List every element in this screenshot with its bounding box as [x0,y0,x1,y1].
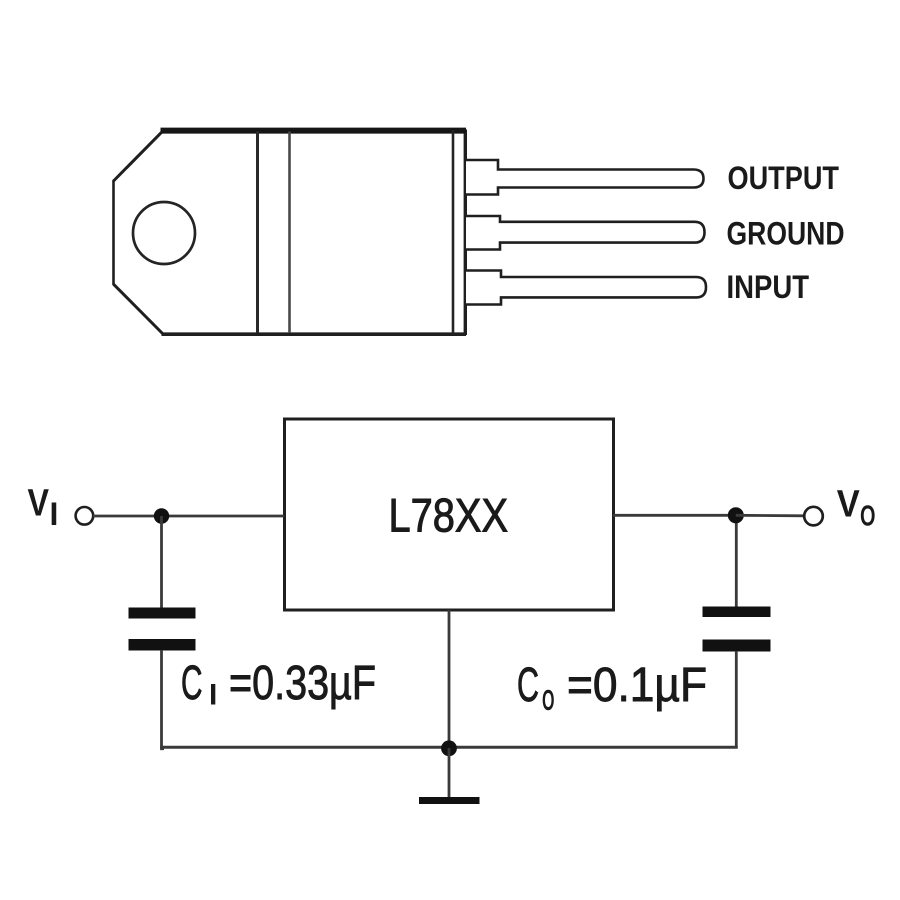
pin 2 GROUND lead [466,216,705,250]
svg-text:L78XX: L78XX [389,489,509,542]
wire node A down to capacitor Ci [160,516,163,608]
capacitor Co bottom plate [703,640,771,652]
wire node B to output terminal Vo [736,514,804,517]
svg-text:C: C [517,659,539,712]
svg-text:OUTPUT: OUTPUT [728,160,840,196]
ground rail wire [160,746,738,749]
wire regulator ground pin to ground rail [448,610,451,748]
svg-text:O: O [542,685,555,717]
label Ci value [181,657,376,712]
svg-text:I: I [209,679,217,712]
regulator U1 box [285,419,614,610]
ground node junction dot [441,740,457,756]
svg-text:V: V [837,484,861,526]
label Co value [517,659,707,717]
wire regulator output to node B [613,514,735,517]
package tab divider line 2 [288,132,291,334]
input terminal Vi [76,507,94,525]
wire node B down to capacitor Co [735,515,738,607]
svg-text:=0.1µF: =0.1µF [567,659,707,712]
wire ground node to ground symbol [448,748,451,800]
package mounting hole [133,202,195,264]
node B junction dot [728,507,744,523]
ground symbol [419,797,480,804]
package tab divider line 1 [256,132,259,334]
pin 1 OUTPUT lead [466,160,704,195]
output terminal Vo [804,507,823,526]
label Vi [28,483,59,533]
svg-text:V: V [28,483,50,525]
wire Vi terminal to node A [93,515,161,518]
package right edge inner line [452,130,455,334]
svg-text:INPUT: INPUT [727,269,810,305]
wire capacitor Ci to ground rail [162,650,165,749]
svg-text:C: C [181,657,203,710]
capacitor Ci top plate [129,608,196,619]
wire node A to regulator input [161,515,284,518]
regulator package U1 body outline (TO-220 side view) [114,130,467,336]
svg-text:=0.33µF: =0.33µF [229,657,376,710]
svg-text:I: I [50,496,59,532]
svg-text:GROUND: GROUND [727,216,845,252]
capacitor Ci bottom plate [129,639,196,651]
node A junction dot [154,508,169,523]
capacitor Co top plate [703,607,771,618]
wire capacitor Co to ground rail [735,651,738,748]
pin 3 INPUT lead [466,271,706,305]
svg-text:O: O [860,501,876,533]
label Vo [837,484,876,533]
